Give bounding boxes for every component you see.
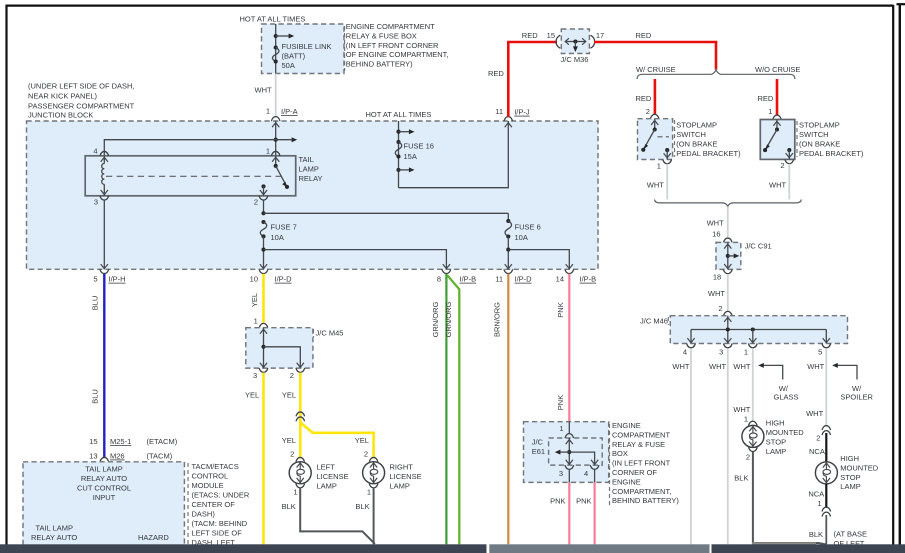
wire pin 1 into J/C E61 [559,422,573,438]
stoplamp merge brace [655,200,802,207]
engine compartment relay and fuse box label (E61) [610,421,680,506]
svg-text:4: 4 [584,469,588,478]
svg-text:CUT CONTROL: CUT CONTROL [77,484,131,493]
stoplamp switch (w/ cruise) [638,114,673,170]
svg-text:HIGH: HIGH [766,419,785,428]
svg-text:RIGHT: RIGHT [390,462,414,471]
wire WHT M46 pin 1 to glass lamp [733,348,752,421]
svg-text:BLU: BLU [90,389,99,404]
connector pin 11 I/P-J [495,107,530,121]
svg-text:1: 1 [744,415,748,424]
J/C E61 internal wires [555,438,598,465]
svg-text:14: 14 [556,275,564,284]
svg-text:1: 1 [657,161,661,170]
svg-text:RELAY & FUSE BOX: RELAY & FUSE BOX [346,31,417,40]
svg-text:M26: M26 [110,451,125,460]
svg-text:STOP: STOP [766,437,786,446]
svg-text:(IN LEFT FRONT: (IN LEFT FRONT [612,459,671,468]
svg-text:WHT: WHT [707,219,724,228]
relay internal dashed link [106,175,282,177]
svg-text:13: 13 [89,451,97,460]
svg-text:1: 1 [266,147,270,156]
svg-text:GRN/ORG: GRN/ORG [431,301,440,337]
svg-text:PNK: PNK [556,302,565,317]
J/C M36 pin 17 [591,31,605,48]
svg-text:WHT: WHT [733,405,750,414]
svg-text:1: 1 [293,487,297,496]
wire BRN/ORG from I/P-D pin 11 [492,274,508,545]
wire WHT merged to J/C C91 [707,207,728,238]
left license lamp [289,457,348,496]
node fuse7 top junction [261,211,265,215]
svg-text:STOPLAMP: STOPLAMP [799,121,840,130]
second page frame edge [897,4,905,546]
svg-text:BLK: BLK [734,474,748,483]
svg-text:J/C M36: J/C M36 [561,55,589,64]
connector pin 14 I/P-B [556,269,597,283]
relay pin 1 [266,147,280,162]
node branch dot with arrow [274,34,295,39]
J/C E61 pin 4 [584,465,599,482]
svg-text:CORNER OF: CORNER OF [612,468,657,477]
wire BLK left license lamp ground [282,488,375,544]
wire GRN/ORG 2 from I/P-B pin 8 [444,275,459,544]
svg-text:WHT: WHT [708,289,725,298]
relay coil [101,156,108,196]
bottom bar right segment [712,544,905,553]
svg-text:LAMP: LAMP [299,165,319,174]
wire PNK pin 4 down [576,482,595,544]
wire fuse7 to I/P-B pin 8 [264,250,451,270]
svg-text:2: 2 [746,453,750,462]
node fuse16 bottom with arrow [396,167,414,172]
svg-text:4: 4 [93,147,97,156]
wire branch to relay pin 4 and arrow right [104,137,297,156]
svg-text:10A: 10A [271,233,284,242]
svg-text:INPUT: INPUT [93,493,116,502]
svg-text:RELAY AUTO: RELAY AUTO [81,474,127,483]
svg-text:ENGINE COMPARTMENT: ENGINE COMPARTMENT [346,22,435,31]
TACM/ETACS control module label [188,462,250,547]
svg-text:PNK: PNK [576,497,591,506]
svg-text:STOPLAMP: STOPLAMP [676,121,717,130]
wire WHT M46 pin 3 down [709,348,728,544]
svg-text:FUSE 7: FUSE 7 [271,223,297,232]
svg-text:SPOILER: SPOILER [840,393,873,402]
svg-text:WHT: WHT [647,180,664,189]
svg-text:2: 2 [780,161,784,170]
svg-text:BEHIND BATTERY): BEHIND BATTERY) [346,59,413,68]
svg-text:I/P-D: I/P-D [515,275,533,284]
junction connector J/C M45 [246,328,344,368]
svg-text:NCA: NCA [809,447,825,456]
svg-text:W/O CRUISE: W/O CRUISE [755,65,800,74]
wire PNK from I/P-B pin 14 to J/C E61 [556,274,570,422]
svg-text:CENTER OF: CENTER OF [192,500,236,509]
svg-text:3: 3 [94,198,98,207]
svg-text:J/C: J/C [532,438,544,447]
svg-text:11: 11 [495,107,503,116]
svg-text:LEFT: LEFT [317,462,336,471]
svg-text:TACM/ETACS: TACM/ETACS [192,462,239,471]
svg-text:RELAY & FUSE: RELAY & FUSE [612,440,665,449]
wire RED I/P-J to J/C M36 [488,31,557,117]
right license lamp [363,457,422,496]
svg-text:SWITCH: SWITCH [799,130,829,139]
svg-text:J/C M45: J/C M45 [316,329,344,338]
svg-text:1: 1 [254,316,258,325]
wire WHT from switch w/o cruise [769,164,789,200]
svg-text:(TACM: BEHIND: (TACM: BEHIND [192,519,248,528]
wire YEL pin 2 to license lamps [282,373,300,459]
svg-text:1: 1 [768,107,772,116]
spoiler lamp inline connector pin 2 [806,409,831,456]
tail lamp relay auto cut control input label [77,465,131,503]
junction connector J/C M36 [561,29,590,64]
wire NCA spoiler lamp to connector [808,484,826,508]
svg-text:I/P-D: I/P-D [275,275,293,284]
wire battery feed inside fuse box [275,24,277,74]
svg-text:15: 15 [547,31,555,40]
wire BLK right license lamp ground [355,488,373,545]
svg-text:17: 17 [596,31,604,40]
svg-text:TAIL LAMP: TAIL LAMP [85,465,123,474]
svg-text:3: 3 [719,348,723,357]
svg-text:HIGH: HIGH [840,454,859,463]
svg-text:JUNCTION BLOCK: JUNCTION BLOCK [28,111,93,120]
svg-text:WHT: WHT [807,362,824,371]
J/C M45 pin 2 [290,368,305,380]
stoplamp switch label (w/ cruise) [675,120,742,158]
J/C C91 pin 16 [712,230,732,243]
svg-text:YEL: YEL [282,436,296,445]
svg-text:5: 5 [818,348,822,357]
TACM/ETACS control module box [23,462,184,546]
svg-text:I/P-J: I/P-J [514,108,530,117]
svg-text:(AT BASE: (AT BASE [834,530,867,539]
connector pin 5 I/P-H [93,269,125,283]
svg-text:BOX: BOX [612,449,628,458]
stoplamp switch (w/o cruise) [760,115,795,170]
svg-text:BLK: BLK [809,530,823,539]
wire WHT from switch w/ cruise [647,164,667,200]
wire to fuse 6 feed [264,212,509,214]
svg-text:SWITCH: SWITCH [676,130,706,139]
svg-text:BEHIND BATTERY): BEHIND BATTERY) [612,496,679,505]
svg-text:I/P-H: I/P-H [109,275,126,284]
svg-text:2: 2 [290,450,294,459]
left license lamp feed labels [282,436,296,459]
svg-text:LAMP: LAMP [766,447,786,456]
svg-text:10A: 10A [515,233,528,242]
svg-text:PASSENGER COMPARTMENT: PASSENGER COMPARTMENT [28,101,135,110]
connector pin 1 of J/C M45 [254,316,268,327]
high mounted stop lamp (w/ spoiler) [815,454,878,491]
svg-text:1: 1 [266,107,270,116]
svg-text:LICENSE: LICENSE [317,472,349,481]
svg-text:(ON BRAKE: (ON BRAKE [799,140,840,149]
svg-text:MODULE: MODULE [192,481,224,490]
wire BLK glass lamp ground [734,452,826,545]
wire I/P-A into junction block [272,121,279,156]
bottom bar accent strip [752,542,816,545]
svg-text:(UNDER LEFT SIDE OF DASH,: (UNDER LEFT SIDE OF DASH, [28,81,135,90]
svg-text:BLK: BLK [355,502,369,511]
wire relay pin 2 to fuse 7 [263,201,265,214]
svg-text:TAIL LAMP: TAIL LAMP [36,524,74,533]
engine compartment relay and fuse box label [345,22,449,71]
svg-text:LAMP: LAMP [390,481,410,490]
svg-text:CONTROL: CONTROL [192,471,229,480]
svg-text:PEDAL BRACKET): PEDAL BRACKET) [799,149,864,158]
relay pin 3 [94,196,109,207]
svg-text:OF ENGINE COMPARTMENT,: OF ENGINE COMPARTMENT, [346,50,449,59]
J/C E61 pin 3 [559,465,574,482]
svg-text:NEAR KICK PANEL): NEAR KICK PANEL) [28,91,98,100]
wire BLK spoiler lamp ground [809,515,826,544]
J/C M46 pin 3 [719,344,732,357]
svg-text:50A: 50A [282,61,295,70]
fusible link (BATT) 50A [272,42,331,70]
wire YEL I/P-D to J/C M45 [250,274,263,323]
svg-text:16: 16 [712,230,720,239]
stoplamp switch label (w/o cruise) [797,121,864,159]
svg-text:2: 2 [718,304,722,313]
inline connector on YEL wire [296,412,305,421]
junction connector J/C M46 [640,316,848,344]
w/ spoiler annotation arrow [832,363,873,402]
J/C M46 internal wires [687,316,830,344]
svg-text:E61: E61 [532,447,545,456]
wire fuse6 to I/P-B pin 14 [508,250,573,270]
bottom bar middle segment [489,544,709,553]
wire YEL pin 3 down to tail lamps [245,373,264,545]
svg-text:ENGINE: ENGINE [612,421,641,430]
svg-text:8: 8 [437,275,441,284]
svg-text:1: 1 [367,487,371,496]
J/C M36 internal wires [565,38,586,52]
svg-text:HOT AT ALL TIMES: HOT AT ALL TIMES [366,110,432,119]
svg-text:WHT: WHT [255,86,272,95]
wire YEL branch to right license lamp [300,423,373,459]
svg-text:BLU: BLU [90,296,99,311]
svg-text:MOUNTED: MOUNTED [766,428,804,437]
wire BLU I/P-H to TACM module [90,274,104,458]
engine compartment relay and fuse box (J/C E61) [524,422,609,483]
svg-text:YEL: YEL [245,391,259,400]
svg-text:ENGINE: ENGINE [612,477,641,486]
svg-text:WHT: WHT [672,362,689,371]
J/C M45 internal wires [260,328,304,368]
svg-text:HOT AT ALL TIMES: HOT AT ALL TIMES [240,15,306,24]
svg-text:PEDAL BRACKET): PEDAL BRACKET) [676,149,741,158]
svg-text:WHT: WHT [709,362,726,371]
svg-text:(BATT): (BATT) [282,52,306,61]
svg-text:HAZARD: HAZARD [138,533,169,542]
svg-text:LAMP: LAMP [840,482,860,491]
wire RED J/C M36 to cruise split [594,31,717,70]
svg-text:W/ CRUISE: W/ CRUISE [636,65,676,74]
wire GRN/ORG 1 from I/P-B pin 8 [431,274,447,545]
svg-text:DASH): DASH) [192,509,216,518]
J/C C91 internal wires [724,242,739,269]
node fuse6 bottom junction [505,237,512,270]
svg-text:(ON BRAKE: (ON BRAKE [676,140,717,149]
svg-text:BRN/ORG: BRN/ORG [492,302,501,337]
svg-text:COMPARTMENT: COMPARTMENT [612,430,670,439]
junction block location label [28,81,135,119]
svg-text:RED: RED [636,94,652,103]
svg-text:WHT: WHT [769,180,786,189]
J/C M46 pin 1 [744,344,757,357]
J/C M36 pin 15 [547,31,561,48]
fuse 16 15A [395,140,434,161]
wire PNK pin 3 down [550,482,569,544]
tail lamp relay auto label (bottom) [31,524,77,543]
wire RED to stoplamp switch w/o cruise [758,79,778,116]
svg-text:TAIL: TAIL [299,155,314,164]
svg-text:STOP: STOP [840,473,860,482]
svg-text:PNK: PNK [550,497,565,506]
svg-text:YEL: YEL [355,436,369,445]
svg-text:3: 3 [253,371,257,380]
svg-text:(ETACM): (ETACM) [147,437,178,446]
svg-text:J/C M46: J/C M46 [640,316,668,325]
high mounted stop lamp (w/ glass) [742,419,804,462]
svg-text:GLASS: GLASS [774,393,799,402]
svg-text:FUSE 16: FUSE 16 [404,142,434,151]
svg-text:LAMP: LAMP [317,481,337,490]
svg-text:RED: RED [758,94,774,103]
svg-text:RED: RED [636,31,652,40]
cruise option split brace [636,65,800,79]
J/C M46 pin 4 [683,344,696,357]
wire WHT M46 pin 4 down [672,348,691,544]
wire RED to stoplamp switch w/ cruise [636,79,655,116]
J/C M45 pin 3 [253,368,268,380]
J/C M46 pin 2 [718,304,732,316]
relay switch contact [260,156,289,196]
bottom bar left segment [0,544,487,553]
svg-text:RELAY: RELAY [299,174,323,183]
svg-text:M25-1: M25-1 [110,437,131,446]
node fuse16 top with arrow [396,129,414,134]
high mounted stop lamp (w/ glass) pin 1 [733,405,757,426]
wire WHT fusible link to I/P-A [255,74,276,118]
svg-text:J/C C91: J/C C91 [745,242,772,251]
svg-text:I/P-B: I/P-B [460,275,477,284]
svg-text:2: 2 [254,198,258,207]
relay pin 4 [93,147,108,162]
svg-text:15A: 15A [404,152,417,161]
J/C M46 pin 5 [818,344,831,357]
connector pin 15 M25-1 (ETACM) [89,437,178,446]
spoiler lamp inline connector pin 1 [822,507,831,516]
svg-text:RED: RED [488,69,504,78]
svg-text:I/P-B: I/P-B [580,275,597,284]
svg-text:WHT: WHT [733,362,750,371]
wire fuse16 to I/P-J [399,121,512,188]
connector pin 1 I/P-A [266,107,298,122]
svg-text:I/P-A: I/P-A [281,107,298,116]
svg-text:1: 1 [817,499,821,508]
svg-text:2: 2 [816,434,820,443]
svg-text:4: 4 [683,348,687,357]
svg-text:RED: RED [522,31,538,40]
svg-text:YEL: YEL [250,293,259,307]
svg-text:LICENSE: LICENSE [390,472,422,481]
svg-text:11: 11 [495,275,503,284]
wire WHT J/C C91 to J/C M46 [708,274,728,311]
svg-text:5: 5 [93,275,97,284]
svg-text:(ETACS: UNDER: (ETACS: UNDER [192,490,250,499]
tail lamp relay [85,156,296,196]
svg-text:10: 10 [250,275,258,284]
connector pin 8 I/P-B [437,269,476,283]
engine compartment relay and fuse box (fusible link) [262,24,345,74]
svg-text:FUSIBLE LINK: FUSIBLE LINK [282,42,332,51]
wire WHT M46 pin 5 to spoiler lamp [807,348,826,427]
connector pin 11 I/P-D [495,269,532,283]
svg-text:2: 2 [290,371,294,380]
svg-text:BLK: BLK [282,502,296,511]
svg-text:18: 18 [713,273,721,282]
fuse 6 10A [505,213,541,242]
fuse 7 10A [260,220,296,242]
wire NCA to spoiler lamp [825,433,827,462]
tail lamp relay label [299,155,323,183]
svg-text:WHT: WHT [806,409,823,418]
svg-text:2: 2 [364,450,368,459]
svg-text:MOUNTED: MOUNTED [840,463,878,472]
passenger compartment junction block box [27,121,599,269]
svg-text:15: 15 [89,437,97,446]
svg-text:(TACM): (TACM) [147,451,173,460]
wire relay pin 3 to I/P-H [101,201,108,270]
junction connector J/C C91 [716,242,772,270]
connector pin 10 I/P-D [250,269,293,283]
relay pin 2 [254,196,268,207]
right license lamp feed labels [355,436,369,459]
at base of left label [834,530,867,548]
svg-text:FUSE 6: FUSE 6 [515,223,541,232]
svg-text:1: 1 [744,348,748,357]
svg-text:GRN/ORG: GRN/ORG [444,301,453,337]
svg-text:PNK: PNK [556,395,565,410]
svg-text:LEFT SIDE OF: LEFT SIDE OF [192,528,243,537]
connector pin 13 M26 (TACM) [89,451,173,462]
svg-text:NCA: NCA [808,489,824,498]
svg-text:(IN LEFT FRONT CORNER: (IN LEFT FRONT CORNER [346,41,439,50]
svg-text:COMPARTMENT,: COMPARTMENT, [612,487,671,496]
svg-text:RELAY AUTO: RELAY AUTO [31,533,77,542]
svg-text:2: 2 [646,107,650,116]
J/C C91 pin 18 [713,269,732,281]
node fuse7 bottom junction [260,236,267,269]
svg-text:3: 3 [559,469,563,478]
svg-text:1: 1 [559,424,563,433]
w/ glass annotation arrow [758,363,798,402]
junction connector J/C E61 [532,438,602,466]
svg-text:YEL: YEL [282,391,296,400]
fuse 16 feed wire [398,121,400,188]
